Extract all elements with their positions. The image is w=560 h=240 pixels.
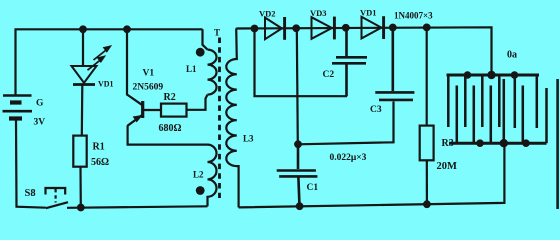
node grid top bar junction 3: [511, 71, 519, 79]
diode VD1: [362, 16, 384, 39]
svg-text:0a: 0a: [507, 50, 517, 61]
node C1 bottom junction: [296, 202, 304, 210]
wire bottom rail primary: [67, 206, 208, 208]
node L3 top junction: [251, 25, 259, 33]
svg-text:C3: C3: [370, 105, 382, 115]
node VD3 cathode junction: [342, 24, 350, 32]
svg-text:G: G: [36, 99, 44, 109]
transformer winding L3: [226, 28, 238, 207]
grid finger down 6: [536, 75, 539, 128]
svg-text:2N5609: 2N5609: [133, 83, 164, 93]
wire base to R2: [144, 109, 161, 111]
capacitor C3: [375, 28, 414, 100]
transistor V1: [128, 101, 143, 126]
svg-text:L1: L1: [186, 64, 197, 74]
transformer core: [218, 38, 221, 199]
svg-text:0.022μ×3: 0.022μ×3: [330, 153, 367, 163]
switch S8: [46, 188, 69, 208]
svg-text:C1: C1: [307, 183, 319, 193]
node top rail LED junction: [79, 25, 87, 33]
grid finger up 1: [456, 86, 459, 144]
node VD2 cathode junction: [292, 24, 300, 32]
node R3 bottom junction: [423, 200, 431, 208]
wire R2 to L1 bottom: [187, 95, 208, 110]
wire top rail secondary: [236, 27, 491, 75]
transformer L2 phase dot: [196, 186, 205, 195]
node grid bottom bar junction 2: [500, 139, 508, 147]
svg-text:3V: 3V: [34, 118, 46, 128]
grid finger down 3: [481, 75, 484, 127]
node R3 top junction: [423, 24, 431, 32]
transformer winding L2: [208, 145, 217, 207]
capacitor C2: [332, 28, 367, 96]
resistor R3: [420, 126, 434, 161]
svg-text:S8: S8: [25, 188, 36, 199]
node VD1 cathode junction: [389, 24, 397, 32]
svg-text:R1: R1: [93, 142, 105, 153]
wire VD2 anode tap down: [255, 29, 348, 97]
svg-text:R2: R2: [164, 92, 176, 103]
wire top rail primary: [16, 29, 203, 95]
electrode grid bottom bar: [449, 142, 547, 145]
wire bottom rail secondary: [239, 143, 505, 207]
svg-text:VD1: VD1: [360, 8, 377, 18]
svg-text:680Ω: 680Ω: [159, 123, 182, 134]
svg-text:VD1: VD1: [98, 80, 114, 89]
svg-text:L3: L3: [243, 134, 254, 144]
wire emitter to L2: [128, 125, 208, 144]
battery G: [3, 96, 33, 119]
svg-text:T: T: [214, 28, 220, 38]
wire battery negative to switch: [16, 121, 46, 208]
grid finger down 2: [464, 75, 467, 127]
node grid top bar junction 2: [487, 71, 495, 79]
svg-text:20M: 20M: [437, 161, 458, 172]
svg-text:56Ω: 56Ω: [91, 157, 109, 168]
grid finger up 6: [545, 88, 548, 143]
resistor R3 top lead: [426, 27, 428, 125]
LED VD1 anode wire: [82, 29, 84, 66]
svg-text:V1: V1: [143, 69, 155, 79]
capacitor C1: [277, 144, 318, 206]
node grid bottom bar junction 1: [476, 139, 484, 147]
node top rail collector junction: [123, 25, 131, 33]
node R1 bottom junction: [77, 204, 85, 212]
grid finger down 1: [447, 75, 450, 127]
LED VD1: [72, 46, 112, 85]
grid finger up 2: [473, 86, 476, 144]
wire VD2 cathode down to C1: [297, 28, 298, 144]
wire C3 bottom link: [298, 102, 394, 145]
node C3 bottom junction: [294, 140, 302, 148]
electrode grid top bar: [447, 74, 540, 77]
grid finger down 4: [498, 75, 501, 127]
wire LED cathode to R1: [81, 86, 84, 136]
grid outer right conductor: [556, 79, 559, 209]
svg-text:L2: L2: [193, 170, 204, 180]
svg-text:VD2: VD2: [259, 9, 276, 19]
resistor R1: [73, 136, 86, 167]
wire collector to top rail: [127, 29, 142, 104]
svg-text:R3: R3: [442, 138, 454, 149]
wire R1 to bottom rail: [79, 167, 82, 208]
resistor R2: [161, 104, 187, 117]
svg-text:C2: C2: [323, 70, 335, 80]
diode VD2: [265, 17, 285, 40]
diode VD3: [312, 17, 335, 40]
node grid bottom bar junction 3: [522, 139, 530, 147]
grid finger up 4: [503, 79, 506, 143]
grid finger up 3: [490, 86, 493, 144]
transformer winding L1: [203, 29, 217, 94]
grid finger down 5: [514, 75, 517, 128]
resistor R3 bottom lead: [426, 160, 428, 204]
node grid top bar junction 1: [464, 71, 472, 79]
svg-text:1N4007×3: 1N4007×3: [394, 11, 433, 21]
grid finger up 5: [522, 86, 525, 144]
transformer L1 phase dot: [196, 48, 205, 57]
svg-text:VD3: VD3: [310, 8, 327, 18]
